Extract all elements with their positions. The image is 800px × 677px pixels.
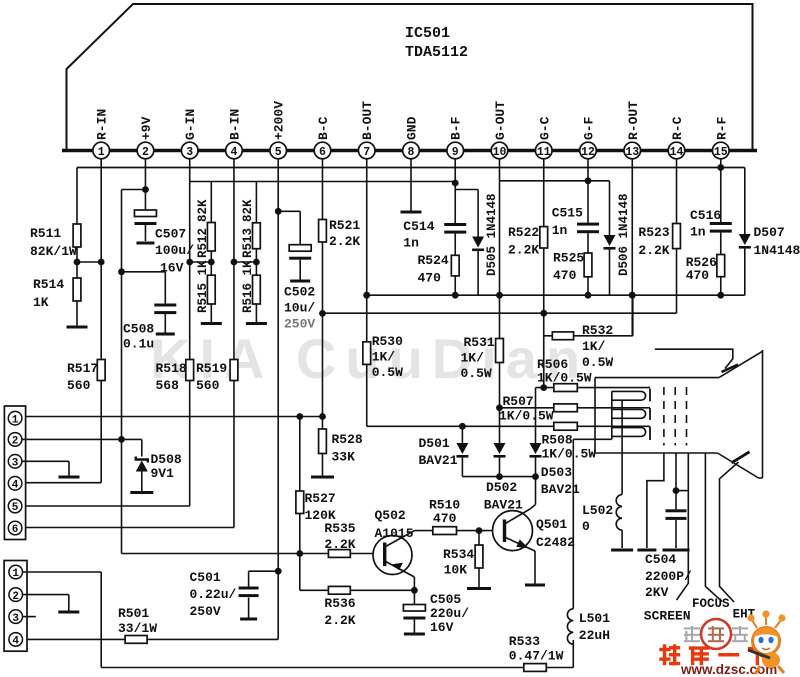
svg-text:250V: 250V	[190, 604, 221, 619]
svg-text:12: 12	[581, 146, 595, 159]
svg-text:5: 5	[12, 502, 19, 514]
svg-text:R516 1K: R516 1K	[241, 260, 255, 313]
svg-text:L501: L501	[579, 611, 610, 626]
svg-text:D506 1N4148: D506 1N4148	[617, 193, 631, 276]
svg-text:C508: C508	[123, 322, 154, 337]
svg-text:2: 2	[142, 146, 149, 159]
svg-text:3: 3	[186, 146, 193, 159]
svg-text:2.2K: 2.2K	[324, 613, 355, 628]
svg-text:D507: D507	[754, 225, 785, 240]
svg-text:B-IN: B-IN	[227, 109, 242, 140]
svg-text:560: 560	[67, 378, 91, 393]
svg-text:C514: C514	[403, 219, 434, 234]
svg-text:R527: R527	[305, 491, 336, 506]
svg-text:R534: R534	[443, 547, 474, 562]
svg-text:R521: R521	[329, 218, 360, 233]
svg-text:1: 1	[12, 414, 19, 426]
svg-text:470: 470	[686, 268, 710, 283]
svg-text:0.5W: 0.5W	[582, 355, 613, 370]
svg-text:22uH: 22uH	[579, 628, 610, 643]
svg-text:1K/: 1K/	[461, 351, 485, 366]
svg-text:0.5W: 0.5W	[372, 365, 403, 380]
svg-text:82K: 82K	[196, 199, 210, 222]
svg-text:B-F: B-F	[449, 116, 464, 140]
svg-text:R-F: R-F	[714, 116, 729, 140]
svg-text:R524: R524	[418, 253, 449, 268]
svg-text:G-OUT: G-OUT	[493, 101, 508, 140]
svg-text:BAV21: BAV21	[484, 498, 523, 513]
svg-text:BAV21: BAV21	[419, 453, 458, 468]
svg-text:C505: C505	[430, 592, 461, 607]
svg-text:1K/0.5W: 1K/0.5W	[499, 409, 554, 424]
svg-text:R515 1K: R515 1K	[196, 260, 210, 313]
svg-text:11: 11	[537, 146, 551, 159]
svg-text:R523: R523	[638, 225, 669, 240]
svg-text:G-IN: G-IN	[183, 109, 198, 140]
svg-text:8: 8	[408, 146, 415, 159]
svg-text:R518: R518	[156, 361, 187, 376]
svg-text:D501: D501	[419, 436, 450, 451]
svg-text:C501: C501	[190, 570, 221, 585]
svg-text:3: 3	[12, 458, 19, 470]
svg-text:www.dzsc.com: www.dzsc.com	[680, 662, 777, 677]
svg-text:5: 5	[275, 146, 282, 159]
svg-text:FOCUS: FOCUS	[692, 597, 730, 611]
svg-text:82K/1W: 82K/1W	[30, 244, 77, 259]
svg-text:IC501: IC501	[405, 25, 450, 42]
svg-text:R513: R513	[241, 228, 255, 258]
svg-text:D505 1N4148: D505 1N4148	[485, 193, 499, 276]
svg-text:R531: R531	[464, 335, 495, 350]
svg-text:R501: R501	[118, 606, 149, 621]
svg-text:0.22u/: 0.22u/	[190, 587, 237, 602]
svg-text:C515: C515	[552, 206, 583, 221]
svg-text:2: 2	[12, 436, 19, 448]
svg-text:D502: D502	[486, 480, 517, 495]
svg-text:BAV21: BAV21	[541, 482, 580, 497]
svg-text:10: 10	[493, 146, 507, 159]
svg-text:1K/0.5W: 1K/0.5W	[542, 447, 597, 462]
svg-text:6: 6	[12, 524, 19, 536]
svg-text:1K: 1K	[33, 295, 49, 310]
svg-text:470: 470	[418, 271, 442, 286]
svg-text:2.2K: 2.2K	[508, 243, 539, 258]
svg-text:Q502: Q502	[375, 508, 406, 523]
svg-text:2.2K: 2.2K	[638, 243, 669, 258]
svg-text:0.47/1W: 0.47/1W	[509, 649, 564, 664]
svg-text:1N4148: 1N4148	[754, 243, 800, 258]
svg-text:10K: 10K	[444, 563, 468, 578]
svg-text:82K: 82K	[241, 199, 255, 222]
svg-text:1: 1	[12, 568, 19, 580]
svg-text:4: 4	[12, 636, 19, 648]
svg-text:R508: R508	[542, 433, 573, 448]
svg-text:7: 7	[363, 146, 370, 159]
svg-text:1K/0.5W: 1K/0.5W	[537, 371, 592, 386]
svg-text:0.1u: 0.1u	[123, 337, 154, 352]
svg-text:14: 14	[670, 146, 684, 159]
svg-text:R522: R522	[508, 225, 539, 240]
svg-text:0.5W: 0.5W	[461, 366, 492, 381]
svg-text:2KV: 2KV	[645, 585, 669, 600]
svg-text:4: 4	[231, 146, 238, 159]
svg-text:C504: C504	[645, 552, 676, 567]
svg-text:D508: D508	[151, 452, 182, 467]
svg-text:R525: R525	[553, 251, 584, 266]
svg-text:4: 4	[12, 480, 19, 492]
svg-text:G-F: G-F	[582, 116, 597, 140]
svg-text:R536: R536	[324, 596, 355, 611]
svg-text:C516: C516	[690, 208, 721, 223]
svg-text:R511: R511	[30, 226, 61, 241]
svg-text:13: 13	[625, 146, 639, 159]
svg-text:R-C: R-C	[670, 116, 685, 140]
svg-text:470: 470	[433, 511, 457, 526]
svg-text:1n: 1n	[403, 236, 419, 251]
svg-text:470: 470	[553, 268, 577, 283]
svg-text:R512: R512	[196, 228, 210, 258]
svg-text:+200V: +200V	[272, 101, 287, 140]
svg-text:GND: GND	[404, 116, 419, 140]
svg-text:2200P/: 2200P/	[645, 569, 692, 584]
svg-text:2: 2	[12, 591, 19, 603]
svg-text:B-C: B-C	[316, 116, 331, 140]
svg-text:R530: R530	[372, 334, 403, 349]
svg-text:1K/: 1K/	[372, 350, 396, 365]
svg-text:R-IN: R-IN	[95, 109, 110, 140]
svg-text:Q501: Q501	[536, 517, 567, 532]
svg-text:1n: 1n	[552, 223, 568, 238]
svg-text:220u/: 220u/	[430, 606, 469, 621]
svg-text:G-C: G-C	[537, 116, 552, 140]
svg-text:B-OUT: B-OUT	[360, 101, 375, 140]
svg-text:9V1: 9V1	[151, 466, 175, 481]
svg-text:R507: R507	[503, 394, 534, 409]
svg-text:1K/: 1K/	[582, 339, 606, 354]
svg-text:16V: 16V	[160, 261, 184, 276]
svg-text:C2482: C2482	[536, 535, 575, 550]
svg-text:A1015: A1015	[375, 526, 414, 541]
svg-text:2.2K: 2.2K	[329, 234, 360, 249]
svg-text:R514: R514	[33, 277, 64, 292]
svg-text:15: 15	[714, 146, 728, 159]
svg-text:560: 560	[196, 378, 220, 393]
svg-text:R519: R519	[196, 361, 227, 376]
svg-text:250V: 250V	[284, 317, 315, 332]
svg-text:R533: R533	[509, 634, 540, 649]
svg-text:0: 0	[582, 519, 590, 534]
svg-text:C507: C507	[155, 227, 186, 242]
svg-text:16V: 16V	[430, 620, 454, 635]
svg-text:6: 6	[319, 146, 326, 159]
svg-text:TDA5112: TDA5112	[405, 44, 468, 61]
svg-text:L502: L502	[582, 503, 613, 518]
svg-text:R517: R517	[67, 361, 98, 376]
svg-text:2.2K: 2.2K	[324, 537, 355, 552]
svg-text:C502: C502	[284, 285, 315, 300]
svg-text:D503: D503	[541, 465, 572, 480]
svg-text:1: 1	[98, 146, 105, 159]
svg-text:+9V: +9V	[139, 116, 154, 140]
svg-text:R532: R532	[582, 323, 613, 338]
svg-text:R-OUT: R-OUT	[626, 101, 641, 140]
svg-text:3: 3	[12, 613, 19, 625]
svg-text:R535: R535	[324, 521, 355, 536]
svg-text:33K: 33K	[332, 450, 356, 465]
svg-text:1n: 1n	[690, 224, 706, 239]
svg-text:568: 568	[156, 378, 180, 393]
svg-text:R528: R528	[332, 432, 363, 447]
svg-text:SCREEN: SCREEN	[644, 609, 691, 624]
svg-text:10u/: 10u/	[284, 301, 315, 316]
svg-text:33/1W: 33/1W	[118, 621, 157, 636]
svg-text:9: 9	[452, 146, 459, 159]
svg-text:100u/: 100u/	[155, 243, 194, 258]
